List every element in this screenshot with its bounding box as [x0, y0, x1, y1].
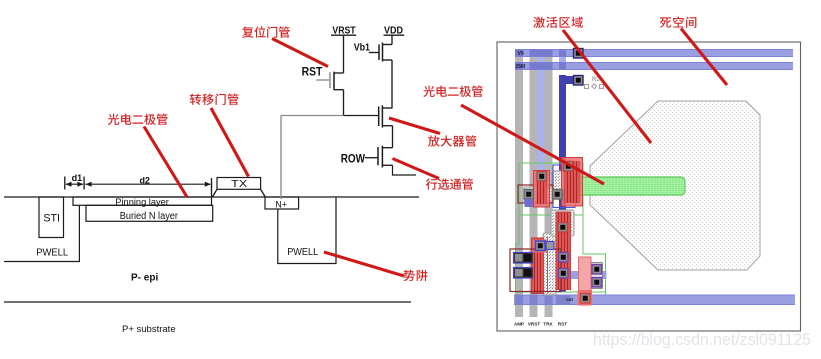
svg-text:Vb1: Vb1	[354, 42, 370, 54]
svg-text:https://blog.csdn.net/zsl09112: https://blog.csdn.net/zsl091125	[593, 331, 811, 349]
svg-text:TRX: TRX	[543, 322, 553, 327]
svg-text:PWELL: PWELL	[36, 247, 68, 258]
svg-text:V9: V9	[518, 51, 524, 57]
svg-text:P+ substrate: P+ substrate	[122, 324, 176, 335]
svg-text:PWELL: PWELL	[287, 247, 318, 258]
svg-text:STI: STI	[43, 213, 60, 225]
svg-text:d2: d2	[139, 176, 150, 186]
svg-text:N+: N+	[275, 200, 287, 211]
svg-text:TX: TX	[231, 179, 247, 190]
svg-text:ROW: ROW	[341, 153, 365, 165]
svg-text:AMP: AMP	[514, 322, 524, 327]
svg-text:d1: d1	[72, 173, 83, 183]
svg-text:VRST: VRST	[528, 322, 540, 327]
svg-text:P- epi: P- epi	[131, 273, 158, 284]
svg-text:Pinning layer: Pinning layer	[115, 197, 169, 207]
svg-text:25M: 25M	[516, 64, 526, 70]
svg-text:RST: RST	[302, 67, 323, 79]
svg-text:Buried N layer: Buried N layer	[120, 211, 179, 222]
svg-text:RST: RST	[558, 322, 567, 327]
svg-text:out: out	[566, 297, 573, 302]
